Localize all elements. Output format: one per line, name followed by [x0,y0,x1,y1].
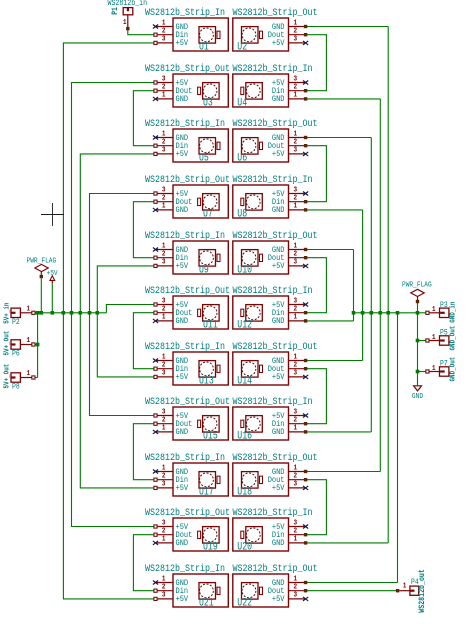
svg-text:+5V: +5V [272,40,285,49]
svg-text:GND: GND [272,96,285,105]
svg-text:P6: P6 [12,350,20,359]
svg-text:3: 3 [294,480,298,489]
svg-text:WS2812b_Strip_In: WS2812b_Strip_In [145,340,225,352]
svg-text:+5V: +5V [176,596,189,605]
svg-text:U9: U9 [199,263,209,275]
svg-text:GND: GND [176,318,189,327]
svg-text:WS2812b_Strip_In: WS2812b_Strip_In [145,6,225,18]
svg-text:WS2812b_Strip_Out: WS2812b_Strip_Out [233,6,318,18]
svg-text:GND: GND [272,429,285,438]
svg-text:P1: P1 [111,7,120,15]
svg-text:WS2812b_Strip_Out: WS2812b_Strip_Out [233,451,318,463]
svg-text:PWR_FLAG: PWR_FLAG [27,257,57,266]
svg-text:GND_Out: GND_Out [449,357,457,382]
svg-text:U20: U20 [237,540,252,552]
svg-text:WS2812b_Strip_Out: WS2812b_Strip_Out [145,506,230,518]
svg-text:GND: GND [176,540,189,549]
svg-text:U3: U3 [203,96,213,108]
svg-text:GND: GND [412,393,423,402]
svg-text:WS2812b_Strip_In: WS2812b_Strip_In [233,62,313,74]
svg-text:U19: U19 [203,540,218,552]
svg-text:WS2812b_Strip_In: WS2812b_Strip_In [233,284,313,296]
svg-text:WS2812b_Strip_Out: WS2812b_Strip_Out [233,117,318,129]
svg-text:3: 3 [162,146,166,155]
svg-text:5V+_in: 5V+_in [3,303,11,324]
svg-text:U1: U1 [199,40,209,52]
svg-text:1: 1 [162,91,166,100]
svg-text:P5: P5 [440,329,448,338]
svg-text:1: 1 [432,333,436,341]
svg-text:U18: U18 [237,485,252,497]
svg-text:P8: P8 [12,383,20,392]
svg-text:3: 3 [162,369,166,378]
svg-text:WS2812b_Strip_In: WS2812b_Strip_In [233,506,313,518]
svg-text:U12: U12 [237,318,252,330]
svg-text:P3: P3 [440,301,448,310]
svg-text:3: 3 [162,480,166,489]
svg-text:U11: U11 [203,318,218,330]
svg-text:1: 1 [162,202,166,211]
svg-text:U4: U4 [237,96,247,108]
svg-text:GND: GND [272,540,285,549]
svg-text:WS2812b_out: WS2812b_out [419,569,428,613]
svg-text:WS2812b_Strip_Out: WS2812b_Strip_Out [145,173,230,185]
svg-text:U13: U13 [199,374,214,386]
svg-text:5V+_Out: 5V+_Out [3,331,11,356]
svg-text:WS2812b_Strip_In: WS2812b_Strip_In [145,229,225,241]
svg-text:WS2812b_Strip_In: WS2812b_Strip_In [145,117,225,129]
svg-text:1: 1 [162,424,166,433]
svg-text:U17: U17 [199,485,214,497]
svg-text:U7: U7 [203,207,213,219]
svg-text:WS2812b_Strip_In: WS2812b_Strip_In [233,395,313,407]
svg-text:GND_in: GND_in [449,302,457,323]
svg-text:3: 3 [294,146,298,155]
svg-text:WS2812b_Strip_In: WS2812b_Strip_In [233,173,313,185]
svg-text:3: 3 [294,591,298,600]
svg-text:P2: P2 [12,318,20,327]
svg-text:3: 3 [162,35,166,44]
svg-text:GND: GND [176,96,189,105]
svg-text:3: 3 [162,591,166,600]
svg-text:U22: U22 [237,596,252,608]
svg-text:3: 3 [294,258,298,267]
svg-text:1: 1 [27,370,31,378]
svg-text:U6: U6 [237,151,247,163]
svg-text:1: 1 [432,306,436,314]
svg-text:U2: U2 [237,40,247,52]
svg-text:3: 3 [294,369,298,378]
svg-text:1: 1 [123,19,127,27]
svg-text:1: 1 [294,202,298,211]
svg-text:+5V: +5V [272,596,285,605]
svg-text:U21: U21 [199,596,214,608]
svg-text:+5V: +5V [272,485,285,494]
svg-text:1: 1 [294,91,298,100]
svg-text:PWR_FLAG: PWR_FLAG [402,281,432,290]
svg-text:GND: GND [176,429,189,438]
svg-text:P4: P4 [411,579,419,588]
svg-text:P7: P7 [440,360,448,369]
svg-text:1: 1 [27,305,31,313]
svg-text:GND: GND [272,207,285,216]
svg-text:1: 1 [403,582,407,590]
svg-text:U8: U8 [237,207,247,219]
svg-text:U10: U10 [237,263,252,275]
svg-text:WS2812b_Strip_Out: WS2812b_Strip_Out [145,395,230,407]
svg-text:3: 3 [162,258,166,267]
svg-text:WS2812b_Strip_Out: WS2812b_Strip_Out [145,284,230,296]
svg-text:GND_Out: GND_Out [449,326,457,351]
svg-text:1: 1 [162,313,166,322]
svg-text:1: 1 [432,364,436,372]
svg-text:+5V: +5V [272,151,285,160]
svg-text:WS2812b_Strip_Out: WS2812b_Strip_Out [233,340,318,352]
svg-text:+5V: +5V [272,263,285,272]
svg-text:1: 1 [294,313,298,322]
svg-text:+5V: +5V [272,374,285,383]
svg-text:1: 1 [27,337,31,345]
svg-text:WS2812b_Strip_In: WS2812b_Strip_In [145,562,225,574]
svg-text:+5V: +5V [176,485,189,494]
svg-text:+5V: +5V [176,40,189,49]
svg-text:WS2812b_in: WS2812b_in [108,0,148,8]
svg-text:U5: U5 [199,151,209,163]
svg-text:WS2812b_Strip_In: WS2812b_Strip_In [145,451,225,463]
svg-text:1: 1 [294,535,298,544]
svg-text:1: 1 [294,424,298,433]
svg-text:U15: U15 [203,429,218,441]
svg-text:1: 1 [162,535,166,544]
svg-text:WS2812b_Strip_Out: WS2812b_Strip_Out [233,562,318,574]
svg-text:3: 3 [294,35,298,44]
svg-text:U16: U16 [237,429,252,441]
svg-text:WS2812b_Strip_Out: WS2812b_Strip_Out [145,62,230,74]
svg-text:WS2812b_Strip_Out: WS2812b_Strip_Out [233,229,318,241]
svg-text:5V+_Out: 5V+_Out [3,364,11,389]
svg-text:+5V: +5V [176,151,189,160]
svg-text:GND: GND [272,318,285,327]
svg-text:+5V: +5V [176,263,189,272]
svg-text:GND: GND [176,207,189,216]
svg-text:U14: U14 [237,374,252,386]
svg-text:+5V: +5V [176,374,189,383]
